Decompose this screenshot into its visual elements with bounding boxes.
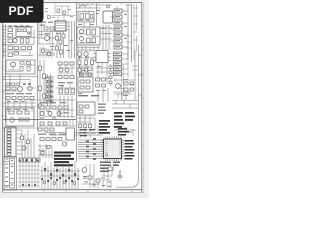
wire stubs right frame [138, 55, 142, 95]
resistor R1002 [85, 105, 89, 108]
transistor Q1401 [82, 168, 87, 173]
connector CN1101 outline [5, 127, 17, 157]
data bus lines into U1401 [78, 140, 103, 158]
capacitor C602 [39, 104, 42, 108]
capacitor C1401 polarized [83, 177, 87, 179]
ladder ticks left margin lower [3, 62, 6, 154]
wire v x96 [96, 3, 98, 26]
PDF badge [0, 0, 44, 23]
wire mesh right y99-134 [114, 100, 136, 136]
resistor R605 [64, 76, 68, 79]
resistor R506 [24, 97, 28, 100]
connector column CN401 [114, 9, 122, 49]
label rows mid-left [6, 93, 32, 94]
svg-text:PDF: PDF [9, 4, 34, 18]
capacitor C904 [40, 122, 44, 125]
wire h y24 [6, 25, 33, 28]
wire mesh right of T501 [58, 65, 75, 95]
zone ticks right border [141, 26, 144, 170]
wire mesh top-mid [38, 21, 69, 53]
wire h y79.5 [3, 79, 30, 81]
diode D501 [6, 87, 10, 90]
wire mesh mid y110-126 [38, 110, 76, 126]
resistor R1003 [79, 110, 83, 113]
resistor R902 [25, 118, 29, 121]
resistor pair R101 R102 [8, 28, 12, 37]
zone ticks bottom border [22, 190, 132, 193]
label bar top [80, 5, 87, 6]
IC U201 [55, 21, 66, 31]
resistor R901 [19, 118, 23, 121]
label row y134 [38, 134, 66, 135]
diode D102 [21, 47, 25, 50]
capacitor C204 [60, 50, 63, 54]
transistor Q501 [11, 62, 16, 67]
resistor R504 [12, 97, 16, 100]
capacitor C906 [56, 122, 60, 125]
wire mesh top band x77-112 [77, 3, 112, 52]
wire top h y8 [76, 7, 101, 9]
transistor Q1201 [62, 142, 66, 146]
wire drops below box C1 [10, 74, 30, 88]
zone ticks left border [1, 44, 4, 164]
capacitor C704 [102, 78, 106, 81]
inner border vertical x131 [131, 4, 133, 62]
series resistor pack on bus [86, 138, 96, 160]
component chain x109 [109, 64, 112, 86]
frame bottom outer edge [2, 191, 144, 193]
resistor R903 [63, 122, 67, 125]
resistor bank y106 [40, 106, 68, 109]
resistor R601 [39, 66, 42, 71]
diode D604 [70, 76, 74, 79]
frame left outer edge [0, 21, 2, 193]
wire stubs column left [110, 5, 132, 41]
diode D602 [64, 62, 68, 65]
capacitor C201 [44, 27, 48, 30]
transistor Q302 [80, 37, 84, 41]
label flecks below IC [84, 164, 117, 186]
net labels above IC right [118, 128, 129, 136]
diode D601 [58, 62, 62, 65]
wire mesh x77-100 y116-136 [77, 118, 98, 136]
label flecks top strip [45, 8, 73, 18]
wire bus x20-35 down [22, 130, 34, 158]
resistor R706 [80, 73, 83, 76]
wire vertical bus left [5, 24, 7, 122]
capacitor C902 [17, 111, 22, 114]
divider wire y119.5 [3, 119, 76, 121]
capacitor C501 [20, 62, 24, 65]
resistor R503 [6, 97, 10, 100]
resistor R210 [57, 9, 60, 13]
microcontroller U1401 [104, 139, 122, 159]
resistor bank y128 mid [38, 128, 54, 131]
wire bus verticals mid-bottom [42, 162, 78, 189]
capacitor C203 [56, 46, 59, 50]
capacitor C802 [130, 88, 133, 91]
transistor Q602 [65, 68, 69, 72]
component stack cluster right [50, 81, 53, 103]
connector row CN1301 [19, 158, 40, 162]
title block text marks [5, 159, 13, 188]
resistor pair R103 R104 [8, 39, 12, 50]
wire h y44 left [3, 45, 34, 57]
capacitor C603 [59, 89, 63, 93]
frame right outer edge [143, 2, 145, 193]
component dashes on bus verticals [41, 177, 79, 182]
node dot A1 [28, 32, 30, 34]
capacitor C301 [91, 15, 93, 19]
resistor R703 [91, 60, 94, 65]
transistor Q801 [116, 84, 121, 89]
pin labels below U1401 [100, 162, 120, 172]
wire bus horizontals mid-bottom [40, 171, 80, 176]
label flecks right column [115, 10, 127, 47]
IC U1201 [66, 128, 75, 140]
wire stubs CN1101 [16, 130, 22, 154]
diode D506 [16, 83, 19, 86]
IC U701 [96, 51, 108, 63]
sub-circuit box B1 [77, 27, 100, 45]
wire mesh mid band x77-112 [77, 58, 108, 76]
sub-circuit box A1 [16, 27, 31, 37]
wire mesh x77-93 y58-76 [77, 56, 93, 77]
pins U701 [94, 54, 111, 61]
resistor R106 [21, 39, 24, 44]
capacitor C211 [42, 49, 45, 52]
inner border vertical right [116, 45, 138, 187]
net labels above bus left [80, 129, 95, 136]
label flecks x78-95 y4 [79, 4, 94, 21]
transistor Q904 [57, 112, 61, 116]
sub-circuit box D1 [78, 77, 93, 92]
ladder ticks left margin [3, 25, 6, 58]
transistor Q901 [10, 118, 14, 122]
capacitor C103 [26, 39, 29, 44]
connector column CN801 [114, 52, 122, 76]
frame right border [141, 2, 143, 192]
resistor R1004 [79, 124, 82, 128]
diode D505 [11, 83, 14, 86]
wire chain x44 [43, 60, 45, 118]
wire h y88 mid [56, 87, 75, 89]
resistor R602 [43, 74, 46, 79]
section divider wire x37 [37, 21, 39, 130]
wire stubs right col y36-48 [126, 36, 137, 60]
capacitor C706 [102, 84, 106, 87]
sub-circuit box F1 [77, 102, 95, 115]
wire comb below IC [90, 164, 98, 188]
crystal X1401 [108, 167, 113, 170]
label flecks x77-96 y132 [78, 133, 96, 134]
resistor R1005 [84, 124, 87, 128]
resistor R1401 [88, 176, 92, 179]
wire h y100 right [112, 99, 138, 101]
wire mesh x38-55 y46-58 [38, 46, 55, 58]
capacitor C701 [80, 80, 84, 83]
wire top strip x55-75 [52, 6, 76, 21]
wire mesh box B1 [78, 28, 100, 43]
resistor R1102 [27, 140, 30, 144]
label flecks mid y112 [40, 111, 68, 119]
capacitor C604 [65, 89, 69, 93]
capacitor C801 [130, 82, 133, 85]
capacitor C901 [9, 111, 14, 114]
transistor Q502 [18, 87, 23, 92]
ground symbol bottom-right [118, 170, 123, 179]
label rows x78 y95 [78, 95, 99, 96]
transistor Q601 [59, 68, 63, 72]
capacitor C601 [43, 94, 46, 98]
bottom page margin [0, 193, 149, 198]
diode D603 [70, 62, 74, 65]
wire comb x8-32 [8, 100, 32, 112]
capacitor C709 [78, 68, 81, 72]
wire h y100 mid [38, 99, 75, 101]
label flecks top band [78, 10, 105, 43]
wire mesh box C1 [6, 64, 35, 72]
component stack cluster left [46, 78, 49, 100]
label flecks right y130 [120, 132, 132, 133]
resistor bank y138 [40, 138, 62, 141]
resistor R501 [20, 67, 23, 72]
wire pair x121-123 [122, 64, 124, 100]
capacitor C1202 [47, 146, 50, 149]
connector CN1101 pins [7, 129, 11, 155]
transistor Q201 [45, 36, 50, 41]
capacitor C703 [96, 78, 100, 81]
capacitor C702 [86, 80, 90, 83]
label flecks top-mid [45, 33, 73, 51]
resistor R107 [14, 52, 18, 55]
capacitor C202 [50, 27, 54, 30]
transistor Q702 [84, 52, 88, 56]
wire h y104 right [112, 104, 138, 108]
wire h stubs y27-39 [100, 28, 112, 39]
resistor R604 [58, 76, 62, 79]
net name bars dark block [54, 152, 74, 167]
capacitor C903 [25, 111, 29, 114]
transistor Q903 [48, 112, 52, 116]
resistor R203 [62, 34, 65, 38]
wire mesh far top-right [133, 4, 138, 44]
wire chain x40 [39, 60, 41, 118]
pin labels right of U1401 [125, 140, 135, 160]
wire bus grid bottom-left horizontals [18, 166, 40, 186]
label row group top-mid [40, 22, 53, 26]
net label block dark x114 [114, 112, 135, 128]
pins U1401 left-right [101, 141, 124, 156]
wire pair below U701 [95, 63, 110, 84]
capacitor C905 [48, 122, 52, 125]
section divider wire x76 [76, 3, 78, 162]
capacitor C705 [96, 84, 100, 87]
coil L301 [80, 14, 84, 20]
wire h y37.5 [6, 30, 36, 44]
wire h y103 [3, 102, 36, 104]
resistor R1001 [79, 105, 83, 108]
resistor R603 [39, 86, 42, 91]
node dot top [107, 5, 110, 8]
capacitor C1303 [63, 181, 65, 183]
wire h y128 left [3, 127, 36, 129]
resistor R701 [78, 60, 81, 65]
wire trio right of U201 [69, 21, 75, 58]
frame left border [2, 22, 4, 192]
diode D502 [12, 87, 16, 90]
sub-circuit box E1 [6, 108, 34, 126]
capacitor C1302 [53, 182, 55, 184]
resistor R801 [124, 82, 128, 85]
resistor chain x79 [79, 56, 81, 76]
resistor R303 [92, 38, 96, 43]
label rows y102 mid [40, 102, 66, 103]
title block table [4, 157, 17, 191]
capacitor C502 [27, 62, 31, 65]
junction dots bus grid bottom [22, 184, 36, 186]
frame bottom border [3, 189, 142, 191]
wire comb mid down [40, 144, 52, 158]
resistor R704 [80, 86, 84, 89]
sub-circuit box C1 mid-left [6, 60, 35, 74]
wire trio x103-109 [103, 25, 109, 50]
top page margin [42, 0, 149, 2]
wire mesh left y86-106 [3, 86, 37, 107]
wire stubs to frame [122, 11, 128, 47]
capacitor C1005 [89, 124, 92, 128]
label dashes below IC bottom [102, 185, 111, 187]
label rows right of F1 [98, 104, 106, 114]
resistor R108 [28, 47, 32, 50]
capacitor C101 [18, 29, 22, 32]
wire mesh right col y80-98 [114, 66, 138, 98]
label flecks mid band [78, 57, 106, 95]
resistor R505 [18, 97, 22, 100]
wire long feeds into bus [45, 133, 103, 136]
capacitor C1301 [43, 181, 45, 183]
resistor R202 [59, 40, 62, 44]
resistor R201 [56, 36, 59, 40]
wire h y38 [38, 37, 55, 39]
resistor R502 [27, 67, 30, 72]
page background [0, 0, 149, 198]
wire comb x80-90 down [80, 115, 90, 138]
label flecks left y100 [7, 101, 27, 110]
wire v x135 [134, 50, 136, 100]
wire mesh below IC [82, 164, 112, 188]
IC U301 rounded [103, 11, 113, 23]
wire comb mid x60-72 [60, 96, 72, 118]
label rows mid [58, 82, 73, 86]
transistor Q902 [40, 112, 44, 116]
transistor Q101 [13, 38, 17, 42]
net label block dark x99 [99, 120, 110, 134]
capacitor C210 [48, 16, 51, 19]
relay box K301 [78, 12, 94, 23]
zone ticks top border [55, 2, 121, 4]
resistor R705 [86, 86, 90, 89]
capacitor C605 [71, 89, 75, 93]
wire bus grid bottom-left verticals [20, 162, 38, 188]
wire stubs cluster [45, 77, 54, 102]
resistor R301 [87, 29, 91, 35]
capacitor C710 [85, 68, 88, 72]
right page margin [144, 0, 149, 198]
resistor R105 [8, 53, 12, 57]
diode D504 [6, 83, 9, 86]
wire v x128 [127, 4, 129, 60]
resistor R1101 [21, 136, 24, 140]
diode D101 [14, 47, 18, 50]
wire mesh relay box [78, 4, 94, 21]
capacitor C1201 [41, 152, 44, 155]
wire bus mid vertical [57, 31, 64, 58]
capacitor C302 [87, 38, 91, 43]
resistor R302 [92, 29, 96, 35]
wire pair cluster [48, 74, 51, 106]
capacitor C506 [30, 97, 34, 100]
wire h y44 [38, 43, 55, 45]
coil L302 [86, 14, 90, 20]
diode D503 [28, 87, 32, 90]
component blobs on bus [44, 168, 76, 177]
capacitor C1304 [73, 182, 75, 184]
wire mesh x38-52 y144-158 [38, 146, 52, 158]
resistor R802 [124, 88, 128, 91]
resistor R1402 [96, 179, 100, 182]
transistor Q1101 [22, 146, 26, 150]
label flecks right column y50-100 [115, 53, 135, 96]
frame top border [42, 1, 142, 3]
resistor R707 [88, 73, 91, 76]
pins U1401 top-bottom [106, 137, 121, 162]
label dashes row top-left [9, 26, 30, 27]
label dash pair y84 [23, 84, 31, 85]
transistor Q701 [77, 52, 81, 56]
wire h y76.5 [3, 76, 37, 78]
wire comb x98-108 [98, 88, 108, 102]
capacitor C102 [23, 29, 27, 32]
dense cluster base tint [46, 76, 54, 104]
transistor Q301 [80, 30, 84, 34]
resistor R211 [63, 11, 66, 15]
resistor R702 [85, 60, 88, 65]
capacitor C212 [48, 52, 51, 55]
junction dots bus grid top [19, 160, 39, 162]
wire mesh right column y50-100 [113, 50, 130, 100]
